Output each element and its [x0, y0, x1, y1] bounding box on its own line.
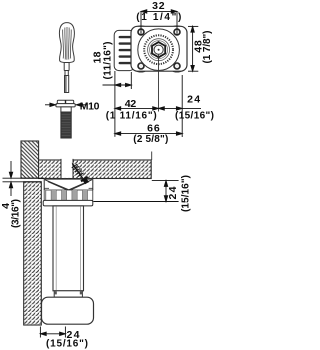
svg-text:(15/16"): (15/16"): [175, 110, 214, 121]
svg-text:42: 42: [125, 98, 137, 110]
boss outer circle: [138, 29, 180, 71]
upper side wall (hatched \): [21, 141, 39, 178]
foot: [42, 297, 94, 324]
svg-text:24: 24: [187, 93, 200, 105]
leg tube: [53, 206, 84, 291]
arrow to bolt right: [76, 103, 87, 106]
collar / plate side view: [43, 179, 93, 206]
dim 24 upper: [159, 75, 202, 137]
knurled ring: [144, 35, 173, 64]
bolt M10: [56, 100, 75, 138]
bottom panel (hatched /): [39, 160, 152, 179]
arrow to bolt left: [45, 103, 56, 106]
screw diagonal: [72, 163, 88, 183]
svg-text:(1 7/8"): (1 7/8"): [202, 31, 213, 64]
line above panel right edge: [151, 152, 153, 161]
dim 18 left: [103, 71, 132, 137]
plate body: [131, 26, 187, 71]
svg-text:(15/16"): (15/16"): [181, 175, 192, 212]
svg-text:(2 5/8"): (2 5/8"): [133, 134, 168, 145]
dim 66: [115, 132, 182, 135]
svg-text:(3/16"): (3/16"): [11, 199, 22, 228]
lower plinth wall (hatched /): [24, 182, 42, 325]
dim 24 bottom: [40, 327, 65, 338]
ribs band: [44, 190, 93, 200]
svg-text:24: 24: [167, 186, 179, 199]
dim 4 left: [3, 161, 45, 196]
screwdriver: [59, 23, 74, 93]
fin bracket: [114, 30, 134, 70]
inner rings: [148, 39, 170, 61]
plate ears: [135, 26, 183, 72]
flange: [43, 200, 93, 206]
screw holes: [138, 29, 180, 69]
svg-text:(15/16"): (15/16"): [46, 338, 88, 349]
hex socket: [152, 42, 165, 57]
dim 32 top: [141, 10, 177, 35]
V funnel: [45, 180, 92, 190]
svg-text:(11/16"): (11/16"): [102, 42, 113, 80]
dim 24 vertical right: [93, 181, 178, 202]
centerline below boss: [158, 55, 160, 112]
dim 42: [115, 107, 159, 110]
dim 48 right: [188, 26, 198, 71]
ferrule: [54, 291, 82, 297]
notch in panel: [61, 159, 73, 179]
svg-text:(1 11/16"): (1 11/16"): [106, 110, 157, 121]
svg-text:M10: M10: [80, 100, 100, 112]
svg-text:66: 66: [147, 122, 160, 134]
svg-text:32: 32: [152, 0, 165, 12]
